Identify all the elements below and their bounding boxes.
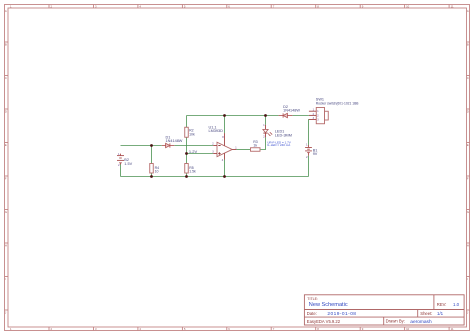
svg-text:TITLE:: TITLE: (307, 297, 318, 301)
svg-text:F: F (467, 177, 469, 181)
wire: R4 top tap (151, 146, 153, 164)
svg-text:IL-LED = 240 mA: IL-LED = 240 mA (267, 143, 290, 147)
wire: R5 bottom to ground rail (186, 173, 188, 177)
svg-text:11: 11 (451, 5, 454, 9)
svg-text:New Schematic: New Schematic (309, 302, 348, 308)
wire: bottom ground rail (121, 176, 309, 178)
svg-text:1.0: 1.0 (453, 302, 460, 307)
junction LED1 / supply rail (264, 114, 267, 117)
resistor R2 (185, 127, 189, 137)
op-amp U1.1 LM393D (213, 133, 236, 159)
svg-text:D: D (467, 110, 469, 114)
wire: B1 negative to ground rail (308, 156, 310, 177)
title block (304, 295, 464, 325)
svg-text:C: C (5, 76, 7, 80)
svg-text:10: 10 (155, 170, 159, 174)
svg-text:1k: 1k (253, 144, 257, 148)
wire: rail corner down to R2 top (186, 116, 188, 128)
wire: D2 to SW1 pin 2 segment (292, 115, 309, 117)
svg-text:1.5k: 1.5k (189, 170, 196, 174)
svg-text:1N4148W: 1N4148W (166, 139, 183, 143)
wire: R4 bottom to ground rail (151, 173, 153, 177)
wire: B2 negative column (120, 164, 122, 176)
diode D2 1N4148W (279, 113, 293, 117)
LED LED1 LED-3MM (263, 125, 273, 137)
svg-text:Sheet:: Sheet: (420, 311, 432, 316)
svg-text:E: E (467, 143, 469, 147)
wire: D1 cathode to U1 pin 2 (174, 145, 213, 147)
svg-text:Date:: Date: (307, 311, 317, 316)
junction U1 pin 8 / supply rail (223, 114, 226, 117)
resistor R4 (150, 164, 154, 174)
wire: R3 right to LED1 cathode (261, 137, 266, 149)
svg-text:D: D (5, 110, 7, 114)
svg-text:B: B (467, 43, 469, 47)
svg-text:10: 10 (406, 327, 410, 331)
junction R5 / ground rail (185, 175, 188, 178)
svg-text:E: E (5, 143, 7, 147)
wire: B2 positive to D1 anode (node BATT) (121, 145, 162, 147)
svg-text:F: F (5, 177, 7, 181)
svg-text:aeromash: aeromash (410, 319, 432, 325)
junction D1 anode / R4 top (150, 144, 153, 147)
svg-text:G: G (5, 210, 7, 214)
svg-text:LM393D: LM393D (209, 129, 224, 133)
svg-text:H: H (467, 244, 469, 248)
svg-text:C: C (467, 76, 469, 80)
svg-text:Drawn By:: Drawn By: (386, 319, 405, 324)
wire: rail to U1 pin 8 (224, 116, 226, 134)
wire: U1 pin 1 output to R3 (236, 149, 250, 151)
svg-text:EasyEDA V5.9.22: EasyEDA V5.9.22 (307, 319, 341, 324)
resistor R3 (251, 148, 261, 152)
svg-text:A: A (5, 9, 7, 13)
wire: U1 pin 4 to ground rail (224, 160, 226, 177)
svg-text:2019-01-08: 2019-01-08 (327, 311, 356, 317)
diode D1 1N4148W (162, 143, 175, 147)
switch SW1 rocker (309, 108, 328, 124)
svg-text:10k: 10k (189, 132, 195, 136)
svg-text:1.2V: 1.2V (189, 149, 198, 154)
wire: 1.2V net to U1 pin 3 (187, 153, 214, 155)
svg-text:B: B (5, 43, 7, 47)
svg-text:H: H (5, 244, 7, 248)
junction R4 / ground rail (150, 175, 153, 178)
wire: 1.2V node to R5 top (186, 154, 188, 164)
wire: supply rail 9V top (187, 115, 279, 117)
svg-text:G: G (467, 210, 469, 214)
svg-text:A: A (467, 9, 469, 13)
svg-text:LED-3MM: LED-3MM (275, 133, 292, 137)
svg-text:10: 10 (406, 5, 410, 9)
wire: SW1 pin 3 down to B1 positive (308, 120, 310, 146)
junction node 1.2V (185, 152, 188, 155)
svg-text:Rocker switch(601-1021 1BB: Rocker switch(601-1021 1BB (316, 102, 359, 106)
svg-text:REV:: REV: (437, 302, 447, 307)
battery B2 1.5V (117, 154, 124, 165)
svg-text:9V: 9V (313, 152, 318, 156)
wire: rail to LED1 anode (265, 116, 267, 125)
battery B1 9V (305, 145, 312, 156)
wire: R2 bottom to 1.2V node (186, 137, 188, 153)
svg-text:1/1: 1/1 (437, 311, 444, 316)
svg-text:1N4148W: 1N4148W (283, 109, 300, 113)
svg-text:1.5V: 1.5V (124, 162, 132, 166)
resistor R5 (185, 164, 189, 174)
junction U1 pin 4 / ground rail (223, 175, 226, 178)
svg-text:11: 11 (451, 327, 454, 331)
